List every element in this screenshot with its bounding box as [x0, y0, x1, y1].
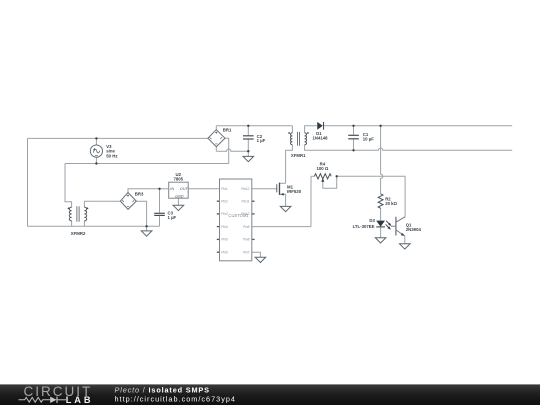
wire XFMR2 primary top jog	[65, 164, 72, 208]
ground M1	[280, 206, 291, 211]
wire XFMR1 secondary bottom output rail with hop	[305, 145, 513, 151]
wire Pin9 feedback	[252, 226, 311, 228]
wire BR1 right AC vertical	[225, 138, 229, 163]
wire V3 top lead	[95, 138, 97, 145]
wire U2 OUT to Pin1	[188, 188, 219, 190]
wire Q1 emitter to ground	[404, 236, 406, 244]
svg-text:LAB: LAB	[66, 395, 94, 405]
wire BR1 bottom lead	[215, 147, 217, 152]
bridge rectifier BR3	[120, 193, 136, 210]
wire pin4 stub	[217, 226, 220, 228]
wire XFMR2 secondary top lead	[84, 201, 120, 207]
svg-text:Pin11: Pin11	[241, 200, 249, 204]
wire XFMR1 primary bottom to M1 drain	[286, 145, 293, 184]
resistor R2	[378, 194, 383, 209]
ground C2	[243, 156, 254, 161]
ground pin7	[255, 257, 266, 262]
node V3 bottom junction	[95, 162, 97, 164]
wire BR3 top lead to U2	[128, 189, 160, 193]
wire pin8 stub	[252, 238, 255, 240]
footer bar	[0, 384, 540, 405]
svg-text:Pin10: Pin10	[241, 212, 249, 216]
svg-text:OUT: OUT	[180, 187, 189, 191]
svg-text:IN: IN	[170, 187, 174, 191]
wire XFMR1 primary top lead	[291, 126, 293, 133]
logo zigzag diode line	[19, 397, 67, 403]
wire R2 rail vertical with hop	[381, 126, 383, 194]
svg-text:XFMR2: XFMR2	[71, 231, 86, 236]
svg-text:50 Hz: 50 Hz	[106, 154, 117, 159]
LED D3	[376, 221, 391, 230]
wire D3 cathode to ground	[380, 227, 382, 238]
svg-text:Pin2: Pin2	[221, 200, 228, 204]
wire D1 cathode to right edge	[324, 125, 513, 127]
svg-text:Pin1: Pin1	[221, 187, 228, 191]
wire U2 gnd stub	[177, 198, 179, 205]
svg-text:Pin7: Pin7	[243, 251, 250, 255]
wire pin11 stub	[252, 200, 255, 202]
svg-text:Pin3: Pin3	[221, 212, 228, 216]
wire pin7 to ground	[252, 252, 261, 257]
transformer XFMR1	[288, 132, 309, 146]
voltage source V3	[90, 145, 102, 157]
wire C2 top lead	[247, 126, 249, 136]
wire top-left horizontal V3 top rail	[28, 137, 208, 139]
wire bottom rail XFMR2	[28, 225, 160, 227]
svg-text:XFMR1: XFMR1	[291, 153, 306, 158]
svg-text:1N4148: 1N4148	[312, 136, 328, 141]
potentiometer R4	[314, 174, 331, 182]
wire R4 left lead	[311, 175, 314, 177]
wire C1 top lead	[353, 126, 355, 135]
MOSFET M1	[277, 183, 284, 196]
wire R4 wiper link	[323, 176, 337, 188]
svg-text:Pin9: Pin9	[243, 225, 250, 229]
wire BR3 right corner down	[136, 201, 146, 226]
wire BR3 gnd stub	[146, 226, 148, 231]
wire pin2 stub	[217, 200, 220, 202]
wire V3 bottom lead	[95, 157, 97, 163]
capacitor C3	[154, 213, 165, 215]
diode D1	[317, 122, 323, 130]
wire R2 bottom to D3	[380, 208, 382, 220]
wire top output rail BR1 to XFMR1	[216, 125, 292, 127]
svg-text:20 kΩ: 20 kΩ	[385, 201, 397, 206]
regulator U2 box	[169, 182, 189, 198]
wire C3 top lead	[159, 189, 161, 213]
transistor Q1	[391, 217, 405, 236]
svg-text:Pin6: Pin6	[221, 251, 228, 255]
node C1 top junction	[352, 125, 354, 127]
wire R4 left vertical to Pin9	[310, 176, 312, 226]
node C2 bottom junction	[247, 150, 249, 152]
IC U1 CUSTOM1 box	[220, 179, 252, 261]
wire C3 bottom lead	[159, 216, 161, 227]
wire M1 drain lead	[280, 182, 286, 184]
wire XFMR2 primary bottom lead	[71, 221, 73, 227]
wire Pin12 to M1 gate	[252, 188, 277, 190]
ground U2	[173, 205, 184, 210]
wire pin10 stub	[252, 213, 255, 215]
node BR3 ground junction	[145, 225, 147, 227]
svg-text:100 Ω: 100 Ω	[316, 166, 328, 171]
svg-text:Plecto / Isolated SMPS: Plecto / Isolated SMPS	[115, 385, 210, 394]
transformer XFMR2	[68, 206, 89, 222]
capacitor C2	[243, 136, 254, 139]
capacitor C1	[348, 135, 359, 139]
svg-text:BR3: BR3	[135, 191, 144, 196]
node C3 top junction	[158, 188, 160, 190]
node R2 rail tap junction	[379, 125, 381, 127]
svg-text:Pin12: Pin12	[241, 187, 249, 191]
wire left vertical	[27, 138, 29, 226]
wire XFMR1 secondary top lead to D1	[305, 126, 318, 133]
wire U2 IN lead	[160, 188, 169, 190]
svg-text:7805: 7805	[174, 176, 184, 181]
svg-text:BR1: BR1	[223, 128, 232, 133]
svg-text:1 µF: 1 µF	[168, 215, 177, 220]
wire BR1 bottom to C2 with hop	[216, 149, 248, 151]
svg-text:GND: GND	[175, 194, 184, 198]
wire pin3 stub	[217, 213, 220, 215]
ground D3	[375, 238, 386, 243]
svg-text:2N3904: 2N3904	[406, 227, 422, 232]
bridge rectifier BR1	[208, 130, 225, 147]
wire BR1 top lead to top rail	[215, 126, 217, 130]
wire C1 bottom lead	[353, 139, 355, 150]
svg-text:Pin8: Pin8	[243, 238, 250, 242]
svg-text:LTL-307EE: LTL-307EE	[353, 224, 375, 229]
svg-text:D3: D3	[369, 218, 375, 223]
svg-text:10 µF: 10 µF	[363, 137, 374, 142]
svg-text:http://circuitlab.com/c673yp4: http://circuitlab.com/c673yp4	[115, 394, 236, 403]
svg-text:Pin5: Pin5	[221, 238, 228, 242]
svg-text:IRF530: IRF530	[287, 189, 302, 194]
wire pin6 stub	[217, 251, 220, 253]
wire XFMR2 secondary bottom lead	[83, 221, 85, 227]
node C1 bottom junction	[352, 149, 354, 151]
wire R4 right to Q1 collector	[337, 176, 405, 217]
ground Q1	[400, 244, 411, 249]
wire M1 source lead to ground	[280, 194, 286, 206]
label U2 pins	[170, 187, 188, 198]
svg-text:Pin4: Pin4	[221, 225, 228, 229]
node C2 top junction	[247, 125, 249, 127]
svg-text:1 µF: 1 µF	[257, 138, 266, 143]
node R4 wiper junction	[336, 175, 338, 177]
wire pin5 stub	[217, 238, 220, 240]
wire V3 bottom rail	[65, 163, 229, 165]
ground BR3	[141, 231, 152, 236]
node V3 top junction	[95, 137, 97, 139]
wire C2 bottom lead	[247, 140, 249, 157]
